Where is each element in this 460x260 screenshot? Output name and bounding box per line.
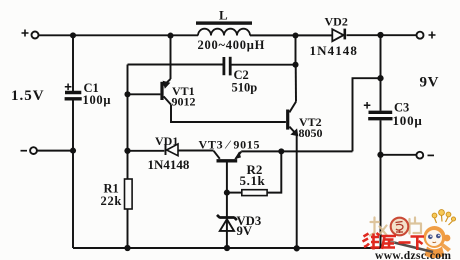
watermark outline char pian: [410, 218, 422, 234]
svg-text:www.dzsc.com: www.dzsc.com: [375, 250, 451, 260]
node: junction minus-rail / battery: [70, 148, 76, 154]
wire: R2 right lead and up: [267, 151, 281, 192]
svg-text:5.1k: 5.1k: [240, 173, 266, 188]
node: junction C2 right: [292, 62, 298, 68]
capacitor C2 plates: [222, 57, 225, 75]
transistor VT3 base bar (horizontal): [217, 159, 238, 162]
svg-text:9V: 9V: [237, 224, 253, 238]
watermark red text weikuyixia: [363, 233, 425, 250]
label: + sign output: [429, 32, 436, 39]
wire: left battery branch upper: [72, 35, 74, 91]
node: junction R2 left / VD3 top: [224, 190, 230, 196]
transistor VT2 base bar: [286, 110, 289, 130]
node: junction VT1 emitter tap: [167, 33, 173, 39]
wire: top rail from + terminal to inductor: [39, 34, 198, 36]
node: junction VD1 cathode tap: [124, 148, 130, 154]
svg-text:VT3 ∕ 9015: VT3 ∕ 9015: [199, 138, 261, 152]
wire: C2 right lead: [232, 64, 296, 66]
inductor L core bar: [196, 21, 252, 24]
wire: C2 feedback branch vertical (base/R1/VD1 node): [127, 65, 129, 180]
wire: R2 left lead: [227, 192, 242, 194]
transistor VT1 collector diagonal: [164, 96, 171, 104]
label: - sign output: [428, 154, 435, 156]
node: junction VT2 emitter bottom: [294, 245, 300, 251]
svg-text:9012: 9012: [172, 95, 196, 109]
capacitor C1 plates: [65, 91, 81, 94]
svg-text:200~400μH: 200~400μH: [198, 38, 266, 52]
wire: left battery branch lower: [72, 100, 74, 248]
node: - input terminal: [30, 147, 37, 154]
diode VD1 1N4148 (cathode bar left, open triangle): [165, 144, 167, 155]
label: - sign input: [21, 150, 28, 152]
node: - output terminal: [416, 152, 423, 159]
wire: VD1 to VT3: [178, 150, 214, 152]
resistor R1 22k body: [125, 179, 133, 209]
wire: top rail VD2 to + output: [347, 34, 417, 36]
wire: VT1 base wire: [128, 93, 161, 95]
node: junction VD3 bottom: [224, 245, 230, 251]
svg-text:1.5V: 1.5V: [11, 88, 45, 104]
wire: loop up and over to C3 branch: [353, 78, 381, 151]
resistor R2 5.1k body: [242, 190, 267, 196]
node: junction VT2 collector / C2 tap on top rail: [292, 32, 298, 38]
capacitor C3 plates: [369, 111, 393, 114]
node: junction R2 right tap: [278, 148, 284, 154]
svg-text:100μ: 100μ: [83, 93, 112, 107]
watermark mascot head: [424, 226, 446, 248]
label: + sign of C3: [364, 102, 371, 109]
svg-text:1N4148: 1N4148: [148, 157, 190, 172]
wire: feedback row right segment to loop corner: [241, 150, 352, 152]
inductor L winding: [198, 29, 250, 36]
svg-text:100μ: 100μ: [393, 113, 423, 128]
diode VD2 1N4148: [332, 29, 343, 41]
svg-text:9V: 9V: [420, 75, 440, 91]
transistor VT2 emitter diagonal with arrow: [289, 127, 296, 135]
wire: R1 to bottom rail: [127, 209, 129, 248]
svg-text:L: L: [219, 8, 228, 23]
watermark red badge circle: [391, 218, 409, 236]
watermark mascot eyes: [428, 235, 433, 240]
svg-text:VD2: VD2: [325, 15, 348, 29]
watermark mascot crown: [390, 210, 456, 258]
wire: VT2 emitter to bottom rail: [296, 135, 298, 248]
label: + sign of C1: [65, 84, 72, 91]
wire: top rail to VT2 collector: [295, 36, 297, 65]
watermark mascot brush: [394, 243, 433, 253]
wire: VT3 base down to VD3: [226, 163, 228, 249]
wire: VT1 collector down and to VT2 base: [171, 105, 286, 122]
transistor VT1 base bar: [160, 82, 163, 100]
wire: top rail inductor to VD2: [250, 34, 332, 36]
zener diode VD3 triangle (anode below, apex up): [220, 219, 234, 231]
label: + sign input: [22, 30, 29, 37]
zener diode VD3 9V cathode bar with hooks: [217, 215, 237, 220]
node: junction VT1 base tap: [124, 91, 130, 97]
wire: C2 left lead: [128, 64, 223, 66]
svg-text:VD1: VD1: [155, 134, 178, 148]
wire: bottom rail: [73, 247, 381, 249]
watermark group bottom right: [363, 210, 456, 260]
svg-text:22k: 22k: [101, 194, 123, 208]
svg-text:1N4148: 1N4148: [310, 43, 359, 58]
node: + output terminal: [417, 32, 424, 39]
transistor VT3 emitter diagonal with arrow (right): [236, 152, 242, 159]
watermark outline char zhao: [370, 218, 421, 236]
node: junction top-left (C1 tap): [70, 32, 76, 38]
node: junction C3 top tap: [377, 32, 383, 38]
transistor VT3 9015 collector diagonal (left): [214, 151, 220, 159]
node: junction loop tap: [377, 75, 383, 81]
watermark mascot body: [425, 247, 445, 259]
wire: C3 branch vertical: [380, 35, 382, 248]
wire: VT1 emitter to top rail: [170, 36, 172, 79]
svg-text:8050: 8050: [299, 126, 323, 140]
transistor VT2 8050 collector diagonal: [289, 102, 296, 113]
wire: to - output terminal: [381, 154, 417, 156]
svg-text:510p: 510p: [232, 81, 258, 95]
node: + input terminal: [32, 32, 39, 39]
transistor VT1 9012 emitter diagonal with arrow: [164, 79, 171, 86]
node: junction R1 bottom: [124, 245, 130, 251]
node: junction - output tap: [377, 152, 383, 158]
wire: - terminal to battery branch: [37, 150, 73, 152]
wire: feedback row y=151 left segment (VD1 leads): [128, 150, 165, 152]
